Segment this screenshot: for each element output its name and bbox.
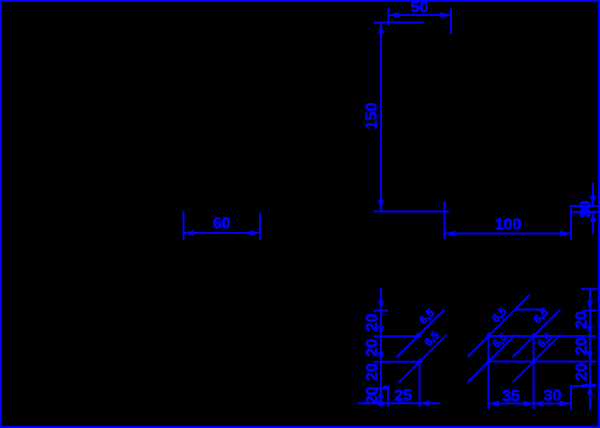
svg-text:20: 20 xyxy=(364,363,381,381)
svg-text:60: 60 xyxy=(213,216,231,233)
svg-text:35: 35 xyxy=(502,388,520,405)
svg-text:20: 20 xyxy=(574,337,591,355)
svg-text:20: 20 xyxy=(364,314,381,332)
svg-text:25: 25 xyxy=(394,387,412,404)
svg-text:20: 20 xyxy=(574,311,591,329)
svg-text:50: 50 xyxy=(411,0,429,16)
svg-text:20: 20 xyxy=(574,363,591,381)
svg-text:30: 30 xyxy=(544,388,562,405)
svg-text:20: 20 xyxy=(364,387,381,405)
svg-text:150: 150 xyxy=(364,103,381,130)
svg-text:100: 100 xyxy=(495,217,522,234)
svg-text:20: 20 xyxy=(364,339,381,357)
svg-text:30: 30 xyxy=(577,201,594,218)
